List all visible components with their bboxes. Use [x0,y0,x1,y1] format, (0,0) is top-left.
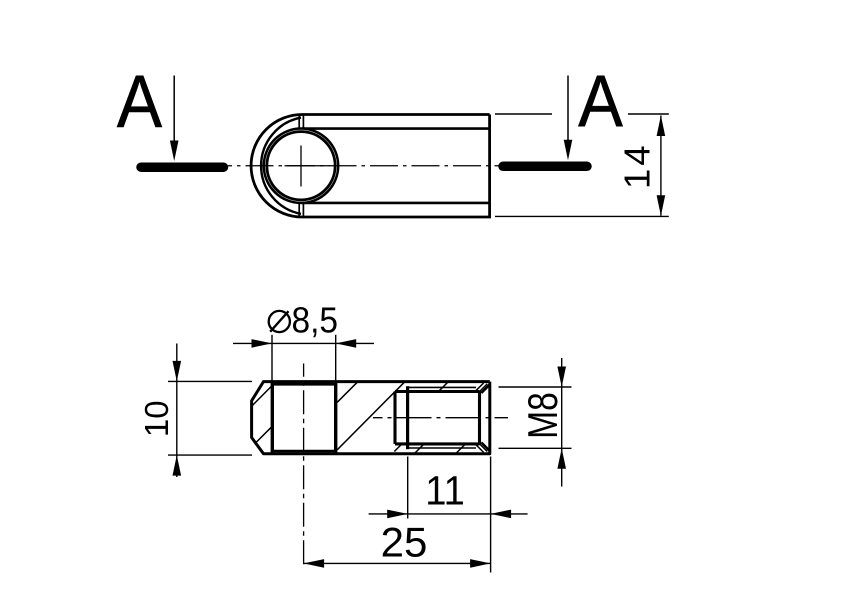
svg-text:A: A [117,62,163,144]
svg-text:A: A [578,61,623,142]
svg-text:M8: M8 [521,392,567,439]
svg-text:10: 10 [138,400,175,437]
svg-text:14: 14 [617,142,658,189]
svg-text:11: 11 [425,468,465,514]
svg-text:8,5: 8,5 [292,301,339,340]
svg-text:25: 25 [381,519,428,566]
